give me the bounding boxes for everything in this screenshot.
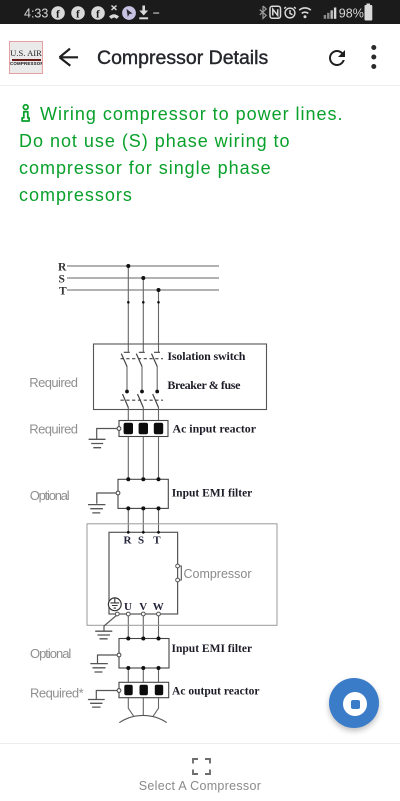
svg-text:T: T (153, 534, 161, 546)
svg-text:Required: Required (29, 422, 78, 437)
svg-text:Ac input reactor: Ac input reactor (173, 422, 257, 436)
svg-text:f: f (56, 8, 60, 20)
svg-text:Compressor: Compressor (184, 566, 253, 581)
svg-text:Breaker & fuse: Breaker & fuse (167, 378, 241, 392)
svg-text:f: f (96, 8, 100, 20)
svg-text:Optional: Optional (30, 646, 71, 661)
svg-text:Ac output reactor: Ac output reactor (172, 684, 260, 698)
svg-text:Isolation switch: Isolation switch (167, 349, 245, 363)
svg-text:R: R (124, 534, 133, 546)
svg-text:S: S (59, 273, 65, 285)
svg-text:R: R (58, 261, 67, 273)
svg-text:Required*: Required* (30, 686, 84, 701)
svg-text:T: T (59, 285, 67, 297)
svg-text:Input EMI filter: Input EMI filter (172, 486, 253, 500)
svg-text:V: V (139, 601, 147, 613)
svg-text:98%: 98% (339, 6, 364, 20)
svg-text:Input EMI filter: Input EMI filter (172, 641, 253, 655)
svg-text:U: U (124, 601, 132, 613)
svg-text:W: W (153, 601, 164, 613)
svg-text:Optional: Optional (30, 488, 70, 503)
svg-text:S: S (138, 534, 144, 546)
svg-text:Required: Required (29, 375, 78, 390)
svg-text:4:33: 4:33 (24, 7, 48, 21)
svg-text:f: f (76, 8, 80, 20)
